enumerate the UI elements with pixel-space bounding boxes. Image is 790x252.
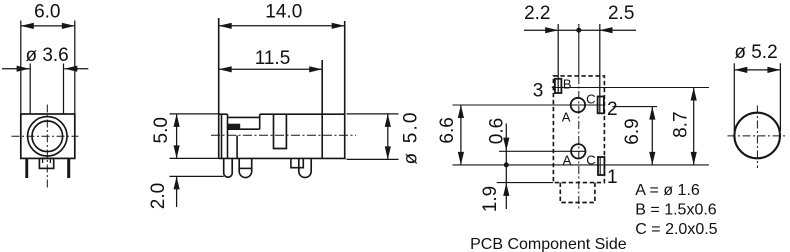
dim line 11.5	[219, 68, 323, 70]
rear circle	[734, 113, 780, 159]
top dim leader	[524, 29, 636, 31]
centerline horizontal view4	[728, 135, 788, 137]
body bottom edge	[219, 157, 346, 159]
inner circle ø3.6	[32, 121, 63, 152]
ext+front face line	[218, 18, 220, 158]
svg-text:B = 1.5x0.6: B = 1.5x0.6	[635, 202, 716, 219]
left pin	[25, 158, 28, 178]
svg-text:2.0: 2.0	[148, 183, 169, 209]
dashed body outline	[553, 76, 604, 183]
1.9 ext line	[497, 182, 554, 184]
sleeve flange right edge	[221, 114, 223, 158]
centerline vertical view4	[756, 106, 758, 169]
svg-text:6.9: 6.9	[622, 118, 643, 144]
svg-text:5.0: 5.0	[151, 117, 172, 143]
bottom reference line	[453, 164, 710, 166]
ext line left ø3.6	[29, 64, 31, 114]
pocket bottom	[228, 128, 260, 130]
svg-text:C: C	[586, 152, 595, 167]
8.7 dim	[693, 88, 695, 165]
ext 2.2	[557, 24, 559, 93]
top reference line	[453, 104, 605, 106]
body top edge main	[260, 113, 345, 115]
svg-text:14.0: 14.0	[265, 2, 302, 23]
2.0 arrow up	[176, 176, 178, 207]
6.6 dim	[460, 105, 462, 165]
centerline horizontal	[12, 135, 79, 137]
svg-text:A = ø 1.6: A = ø 1.6	[635, 182, 700, 199]
pin 1 (front)	[224, 158, 233, 177]
pad C bottom	[598, 157, 604, 175]
footprint centerline vertical	[578, 24, 580, 76]
svg-text:11.5: 11.5	[255, 48, 291, 69]
ext left ø5.2	[733, 63, 735, 131]
svg-text:8.7: 8.7	[671, 111, 692, 137]
svg-text:2: 2	[607, 99, 618, 120]
dashed sleeve tab	[560, 183, 595, 203]
body square	[21, 114, 75, 158]
ext line left 6.0	[20, 21, 22, 114]
dot node bottom	[504, 162, 509, 167]
svg-text:1: 1	[607, 167, 618, 188]
ext line right 6.0	[74, 21, 76, 114]
pad B	[555, 79, 562, 93]
pocket left wall	[227, 114, 229, 158]
6.9 top ext	[612, 106, 657, 108]
ext line 5.0 bottom / 2.0 top	[170, 157, 219, 159]
svg-text:0.6: 0.6	[487, 118, 508, 144]
pin 3	[299, 158, 311, 177]
svg-text:3: 3	[533, 80, 544, 101]
svg-text:C = 2.0x0.5: C = 2.0x0.5	[635, 221, 717, 238]
svg-text:A: A	[562, 110, 571, 125]
ext line 2.0 bottom	[170, 175, 224, 177]
pin 3 shoulder	[291, 158, 303, 167]
body top edge left	[219, 113, 228, 115]
svg-text:6.6: 6.6	[437, 117, 458, 143]
svg-text:C: C	[586, 92, 595, 107]
ø5.0 dim line	[387, 114, 389, 159]
centerline vertical	[46, 105, 48, 189]
dim line ø5.2	[734, 69, 780, 71]
pocket lid	[228, 116, 260, 118]
1.9 dim	[505, 165, 507, 209]
ext line 5.0 top	[170, 113, 220, 115]
pad C top	[598, 97, 604, 114]
ext 2.5	[599, 24, 601, 113]
leader arrow right ø3.6	[64, 68, 88, 70]
dim line 6.0	[21, 25, 75, 27]
svg-text:ø 5.2: ø 5.2	[734, 42, 777, 63]
8.7 top ext (B line)	[552, 87, 709, 89]
svg-text:2.2: 2.2	[524, 3, 550, 24]
dot node top	[576, 28, 581, 33]
ext line right ø3.6	[63, 64, 65, 114]
svg-text:A: A	[563, 152, 572, 167]
outer circle	[28, 117, 67, 156]
svg-text:1.9: 1.9	[480, 186, 501, 212]
ext right ø5.2	[779, 63, 781, 131]
svg-text:ø 3.6: ø 3.6	[25, 45, 68, 66]
dim line 5.0	[176, 114, 178, 158]
ext+internal line 11.5	[321, 60, 323, 158]
right pin	[67, 158, 70, 178]
pocket right wall	[259, 114, 261, 129]
switch contact dark rect	[228, 124, 240, 129]
6.9 dim	[651, 107, 653, 165]
hole A top	[571, 98, 585, 112]
0.6 dim	[505, 124, 507, 165]
contact slot	[274, 114, 287, 148]
svg-text:ø 5.0: ø 5.0	[400, 113, 421, 165]
hole A bottom	[571, 144, 585, 158]
ø5.0 ext top	[347, 113, 399, 115]
center tab	[39, 158, 53, 168]
svg-text:PCB Component Side: PCB Component Side	[470, 236, 627, 252]
svg-text:B: B	[563, 76, 572, 91]
bottom A line	[499, 150, 586, 152]
leader arrow left ø3.6	[2, 68, 30, 70]
dim line 14.0	[219, 25, 345, 27]
centerline side view	[211, 134, 356, 136]
svg-text:2.5: 2.5	[608, 3, 634, 24]
ø5.0 ext bottom	[347, 158, 399, 160]
internal vertical	[236, 135, 238, 158]
ext+right edge line	[344, 21, 346, 158]
pin 2	[239, 158, 252, 177]
svg-text:6.0: 6.0	[34, 1, 60, 22]
